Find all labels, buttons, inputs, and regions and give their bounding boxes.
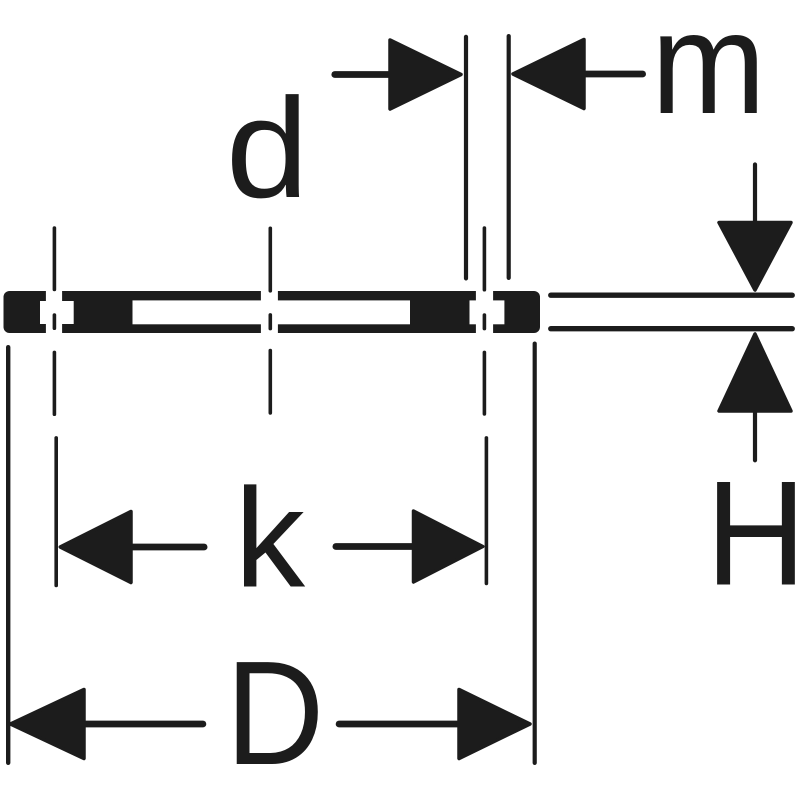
svg-text:k: k [235, 459, 306, 617]
dimension arrow k right (pointing right) [336, 511, 483, 582]
extension line right of d dimension [507, 36, 511, 278]
label d [226, 68, 309, 227]
pipe wall bottom line [551, 326, 792, 331]
D dimension left extension line [6, 347, 10, 763]
label m [651, 0, 766, 144]
centerline of right bolt hole (dashed) [484, 228, 486, 583]
centerline of left bolt hole (dashed) [54, 228, 56, 585]
H dimension lower extension line [753, 412, 757, 460]
pipe wall top line [551, 293, 792, 298]
dimension arrow k left (pointing left) [60, 512, 204, 583]
H dimension bottom arrow (pointing up) [719, 334, 791, 411]
svg-text:H: H [706, 449, 800, 616]
dimension arrow m (pointing left) [513, 40, 643, 109]
H dimension top arrow (pointing down) [719, 223, 791, 291]
label D [226, 631, 325, 796]
svg-text:m: m [651, 0, 766, 144]
bolt hole right (white cutout) [470, 291, 505, 333]
H dimension upper extension line [753, 165, 757, 223]
flange cross-section bar [4, 291, 541, 333]
svg-text:D: D [226, 631, 325, 796]
extension line left of d dimension [464, 37, 468, 279]
break in bar at flange centerline (white cutout) [261, 291, 278, 333]
label H [706, 449, 800, 616]
D dimension right extension line [533, 344, 537, 763]
dimension arrow D left (pointing left) [11, 690, 203, 759]
label k [235, 459, 306, 617]
dimension arrow D right (pointing right) [339, 690, 530, 759]
hollow interior of flange (white cutout) [133, 300, 411, 324]
bolt hole left (white cutout) [40, 291, 74, 333]
svg-text:d: d [226, 68, 309, 227]
flange vertical centerline (dashed) [268, 228, 272, 413]
dimension arrow d (pointing right) [335, 40, 461, 109]
